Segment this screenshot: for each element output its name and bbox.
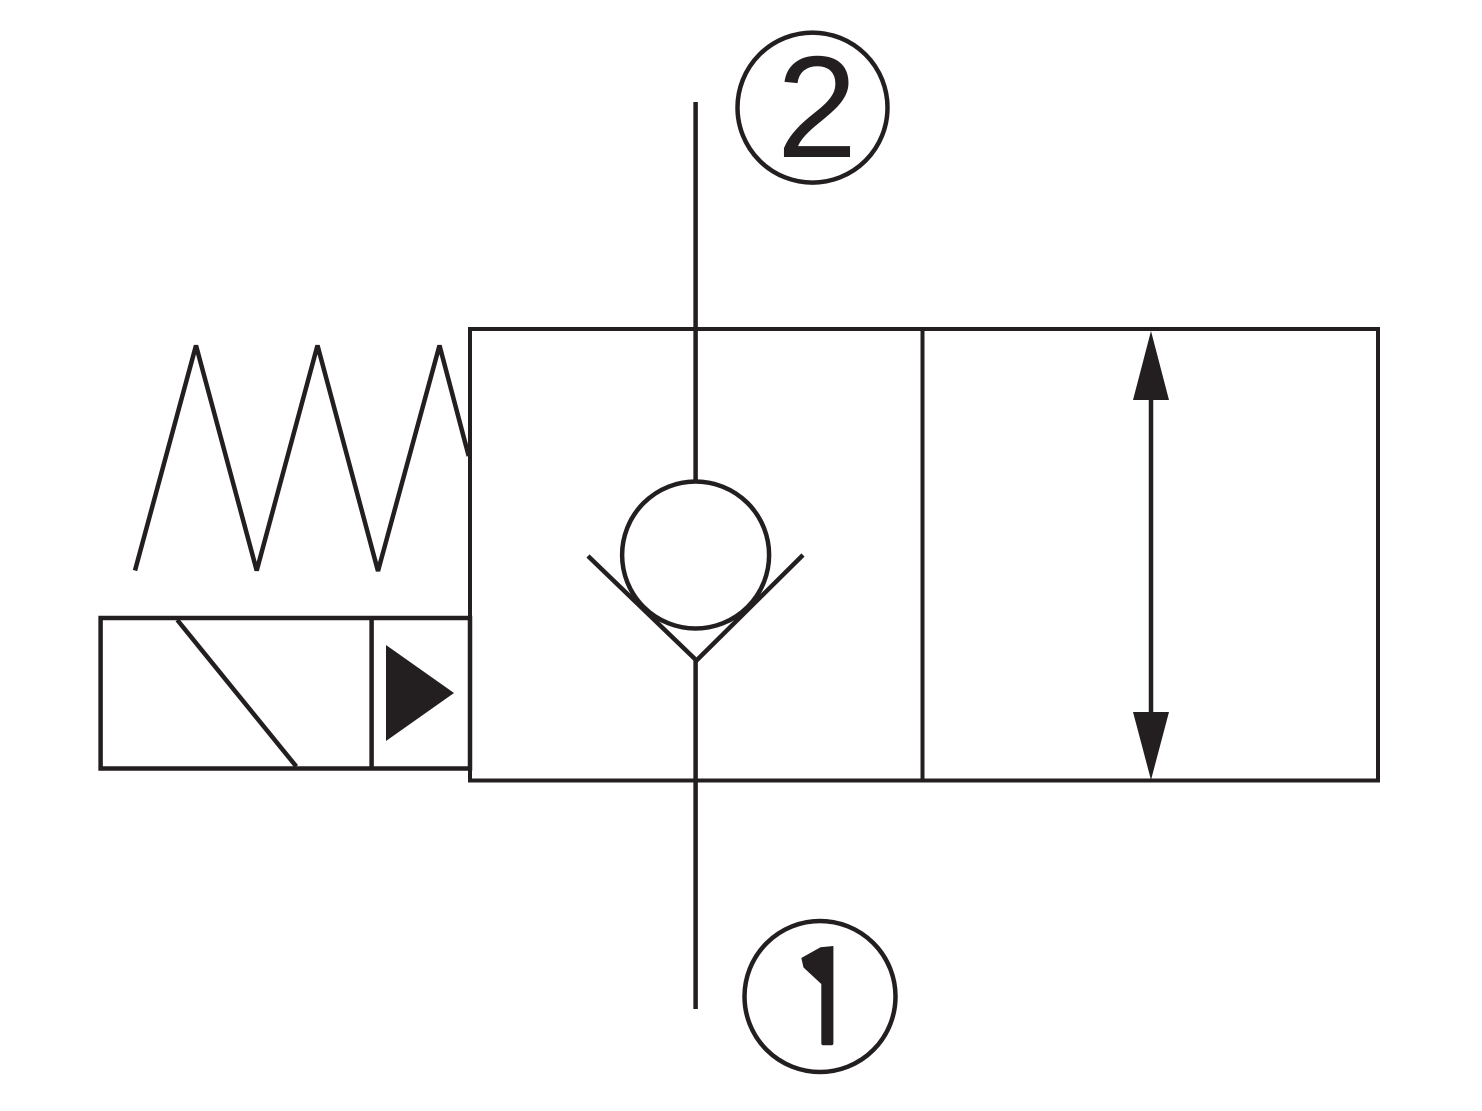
svg-text:2: 2 <box>777 26 858 188</box>
